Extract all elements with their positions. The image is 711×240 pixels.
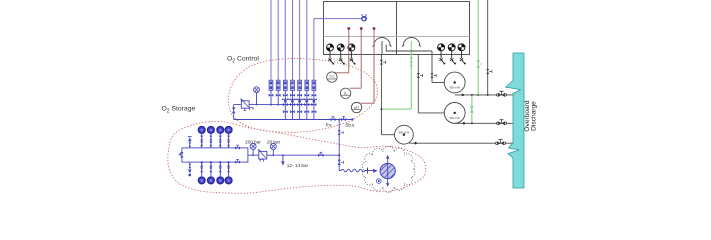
svg-text:350 m³/h: 350 m³/h xyxy=(449,116,460,120)
green sample valves xyxy=(410,54,413,59)
overboard discharge bulkhead xyxy=(506,53,524,188)
svg-text:12- 13 bar: 12- 13 bar xyxy=(287,163,309,168)
svg-text:200 bar: 200 bar xyxy=(245,139,261,144)
green feed line xyxy=(477,0,479,95)
left tank drain line to fan xyxy=(381,55,394,135)
compressor motor xyxy=(377,179,382,184)
compressor feed valve xyxy=(338,155,340,170)
storage cylinder bottom 1 xyxy=(198,161,205,184)
flowmeter 1 xyxy=(269,80,273,90)
valve on supply line xyxy=(318,152,323,157)
quadrant indicator 2 xyxy=(337,44,345,65)
compressor xyxy=(380,163,395,178)
gauge 200 bar xyxy=(250,143,256,155)
storage cylinder bottom 3 xyxy=(217,161,224,184)
gauge 20 bar xyxy=(270,143,276,155)
green sample line from right dome xyxy=(381,41,411,109)
discharge line 2 xyxy=(455,122,513,124)
valve P.s xyxy=(330,117,335,121)
blue supply column 7 with sparger branch xyxy=(314,19,361,81)
manifold L2 xyxy=(234,104,316,106)
instrument O2 xyxy=(340,88,350,98)
hose fitting xyxy=(367,168,369,174)
storage cylinder top 2 xyxy=(207,126,214,148)
control left drop with valve xyxy=(233,105,235,120)
discharge line 1 xyxy=(455,94,513,96)
blue supply column 4 xyxy=(292,0,294,80)
left tank drain valve xyxy=(380,60,383,65)
compressor cloud dotted xyxy=(362,146,415,192)
overboard valve 1 xyxy=(496,91,506,97)
sensor line uH xyxy=(361,29,374,104)
svg-text:20 bar: 20 bar xyxy=(267,139,281,144)
fan 350 lower xyxy=(444,103,465,124)
svg-text:P.s: P.s xyxy=(326,123,333,128)
valves on L2 xyxy=(270,103,316,106)
green crossover valve xyxy=(471,95,473,123)
pressure regulator control xyxy=(240,98,253,110)
right tank drain A to fan2 xyxy=(418,55,444,113)
svg-text:350 m³/h: 350 m³/h xyxy=(449,86,460,90)
quadrant indicator 1 xyxy=(327,44,335,65)
manifold L1 xyxy=(284,98,316,100)
column stems to manifold xyxy=(271,90,314,119)
black feed line xyxy=(487,0,489,95)
12-13 bar branch xyxy=(282,154,284,156)
compressor flow arrows xyxy=(387,158,389,184)
junction to compressor drop xyxy=(338,119,340,121)
water level line xyxy=(324,36,470,38)
svg-text:T°C: T°C xyxy=(329,75,335,79)
junction storage/control xyxy=(338,154,340,156)
blue supply column 1 xyxy=(270,0,272,80)
blue supply column 6 xyxy=(306,0,308,80)
flowmeter 3 xyxy=(283,80,287,90)
fan 600 xyxy=(395,125,414,144)
svg-text:Sb.s: Sb.s xyxy=(345,123,355,128)
storage manifold rectangle xyxy=(182,148,248,162)
pressure gauge control xyxy=(254,87,260,105)
flowmeter 5 xyxy=(298,80,302,90)
bottom header valve xyxy=(235,159,240,163)
overboard valve 2 xyxy=(496,120,506,126)
flexible hose xyxy=(339,169,366,172)
lower column valves xyxy=(283,110,316,113)
quadrant indicator 3 xyxy=(348,44,356,65)
storage cylinder bottom 2 xyxy=(207,161,214,184)
O2 Storage region dotted boundary xyxy=(168,121,426,193)
O2 Control region dotted boundary xyxy=(228,59,377,133)
overboard valve 3 xyxy=(495,140,505,146)
tank divider xyxy=(396,2,398,55)
cluster valves on L1 xyxy=(282,99,317,103)
storage pressure regulator xyxy=(258,149,267,162)
flowmeter 7 xyxy=(312,80,316,90)
instrument uH xyxy=(351,102,361,112)
fan 350 upper xyxy=(444,72,465,93)
instrument TC xyxy=(327,72,337,82)
blue supply column 5 xyxy=(299,0,301,80)
quadrant indicator 4 xyxy=(438,44,446,65)
svg-text:600 m³/h: 600 m³/h xyxy=(399,130,410,134)
dome right tank xyxy=(402,38,421,47)
column valves below flowmeters xyxy=(269,94,317,97)
sensor line O2 xyxy=(350,29,361,89)
svg-text:Discharge: Discharge xyxy=(531,101,538,131)
storage cylinder bottom 4 xyxy=(225,161,232,184)
manifold L3 xyxy=(234,119,353,121)
storage cylinder top 1 xyxy=(198,126,205,148)
storage main line xyxy=(248,154,339,156)
left vent valve xyxy=(180,152,183,157)
right tank drain B to fan1 xyxy=(386,45,444,83)
discharge line 3 xyxy=(409,142,513,144)
storage cylinder top 4 xyxy=(225,126,232,148)
quadrant indicator 6 xyxy=(458,44,466,65)
relief valve top xyxy=(188,137,192,148)
svg-text:µH: µH xyxy=(355,106,360,110)
tank rectangle xyxy=(324,2,470,55)
flowmeter 6 xyxy=(305,80,309,90)
drain valve bottom xyxy=(189,162,191,169)
flowmeter 4 xyxy=(291,80,295,90)
flowmeter 2 xyxy=(276,80,280,90)
top header valve xyxy=(235,145,240,149)
blue supply column 2 xyxy=(277,0,279,80)
sensor line TC xyxy=(335,29,349,73)
quadrant indicator 5 xyxy=(448,44,456,65)
sparger symbol xyxy=(361,14,367,22)
blue supply column 3 xyxy=(284,0,286,80)
storage cylinder top 3 xyxy=(217,126,224,148)
valve Sb.s xyxy=(341,117,346,121)
dome left tank xyxy=(373,38,392,55)
